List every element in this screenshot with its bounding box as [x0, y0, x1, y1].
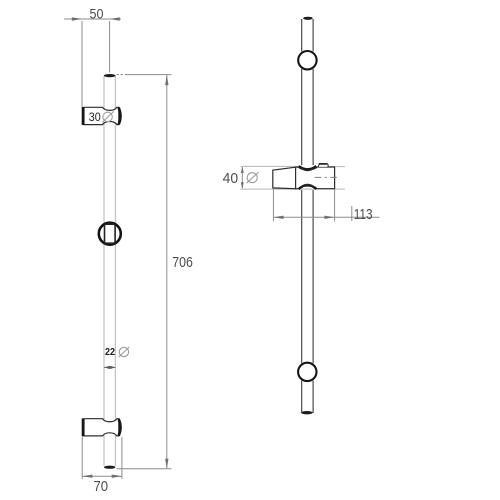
- holder body: [296, 167, 335, 189]
- svg-text:706: 706: [172, 254, 193, 271]
- 40 extension lines: [240, 166, 345, 189]
- holder cone: [273, 167, 296, 189]
- diameter symbol 22: [119, 347, 129, 357]
- holder bottom fillet thick: [299, 185, 316, 189]
- slider inner rect: [105, 224, 116, 243]
- tube top cap: [104, 74, 116, 77]
- dimension 706 line: [166, 75, 168, 469]
- top wall bracket: [84, 107, 119, 124]
- dimension 706 bottom extension: [117, 468, 172, 470]
- tube width dimension arrows: [104, 366, 116, 368]
- dimension 50 arrows: [72, 17, 120, 20]
- dimension 706 arrows: [165, 75, 168, 469]
- holder centre dash-dot line: [315, 176, 340, 178]
- slider knob circle: [99, 223, 121, 245]
- tube top cap side: [303, 17, 313, 20]
- svg-text:113: 113: [354, 206, 373, 223]
- svg-text:40: 40: [223, 171, 239, 187]
- dimension 70 extensions: [82, 437, 122, 479]
- holder tab top bar: [319, 163, 328, 165]
- dimension 706 top extension: [117, 74, 172, 76]
- holder bottom fillet thin: [301, 184, 313, 186]
- diameter symbol 30: [102, 111, 114, 122]
- dimension 50 lines: [64, 19, 121, 107]
- svg-text:50: 50: [90, 6, 104, 21]
- top bracket right cap: [119, 108, 121, 125]
- tube side view: [302, 19, 313, 413]
- dimension 113 arrows: [273, 216, 334, 219]
- dimension 40 arrows: [241, 167, 244, 189]
- bottom bracket left cap: [82, 418, 85, 436]
- top knob: [298, 51, 316, 69]
- tube bottom cap side: [301, 411, 312, 414]
- holder top fillet thin: [301, 168, 314, 170]
- svg-text:70: 70: [94, 478, 109, 495]
- dimension 70 arrows: [82, 475, 122, 478]
- holder top fillet thick: [299, 166, 317, 169]
- svg-text:30: 30: [89, 112, 101, 124]
- holder tab: [319, 165, 328, 167]
- tube bottom cap: [104, 466, 116, 469]
- bottom knob: [298, 363, 316, 381]
- bottom wall bracket: [84, 419, 119, 436]
- tube front view: [104, 76, 115, 466]
- top bracket left cap: [82, 107, 85, 125]
- bottom bracket right cap: [119, 419, 121, 436]
- dimension 40 line: [241, 167, 243, 188]
- svg-text:22: 22: [105, 347, 115, 358]
- diameter symbol 40: [247, 172, 259, 183]
- dimension 113 extensions: [273, 190, 379, 222]
